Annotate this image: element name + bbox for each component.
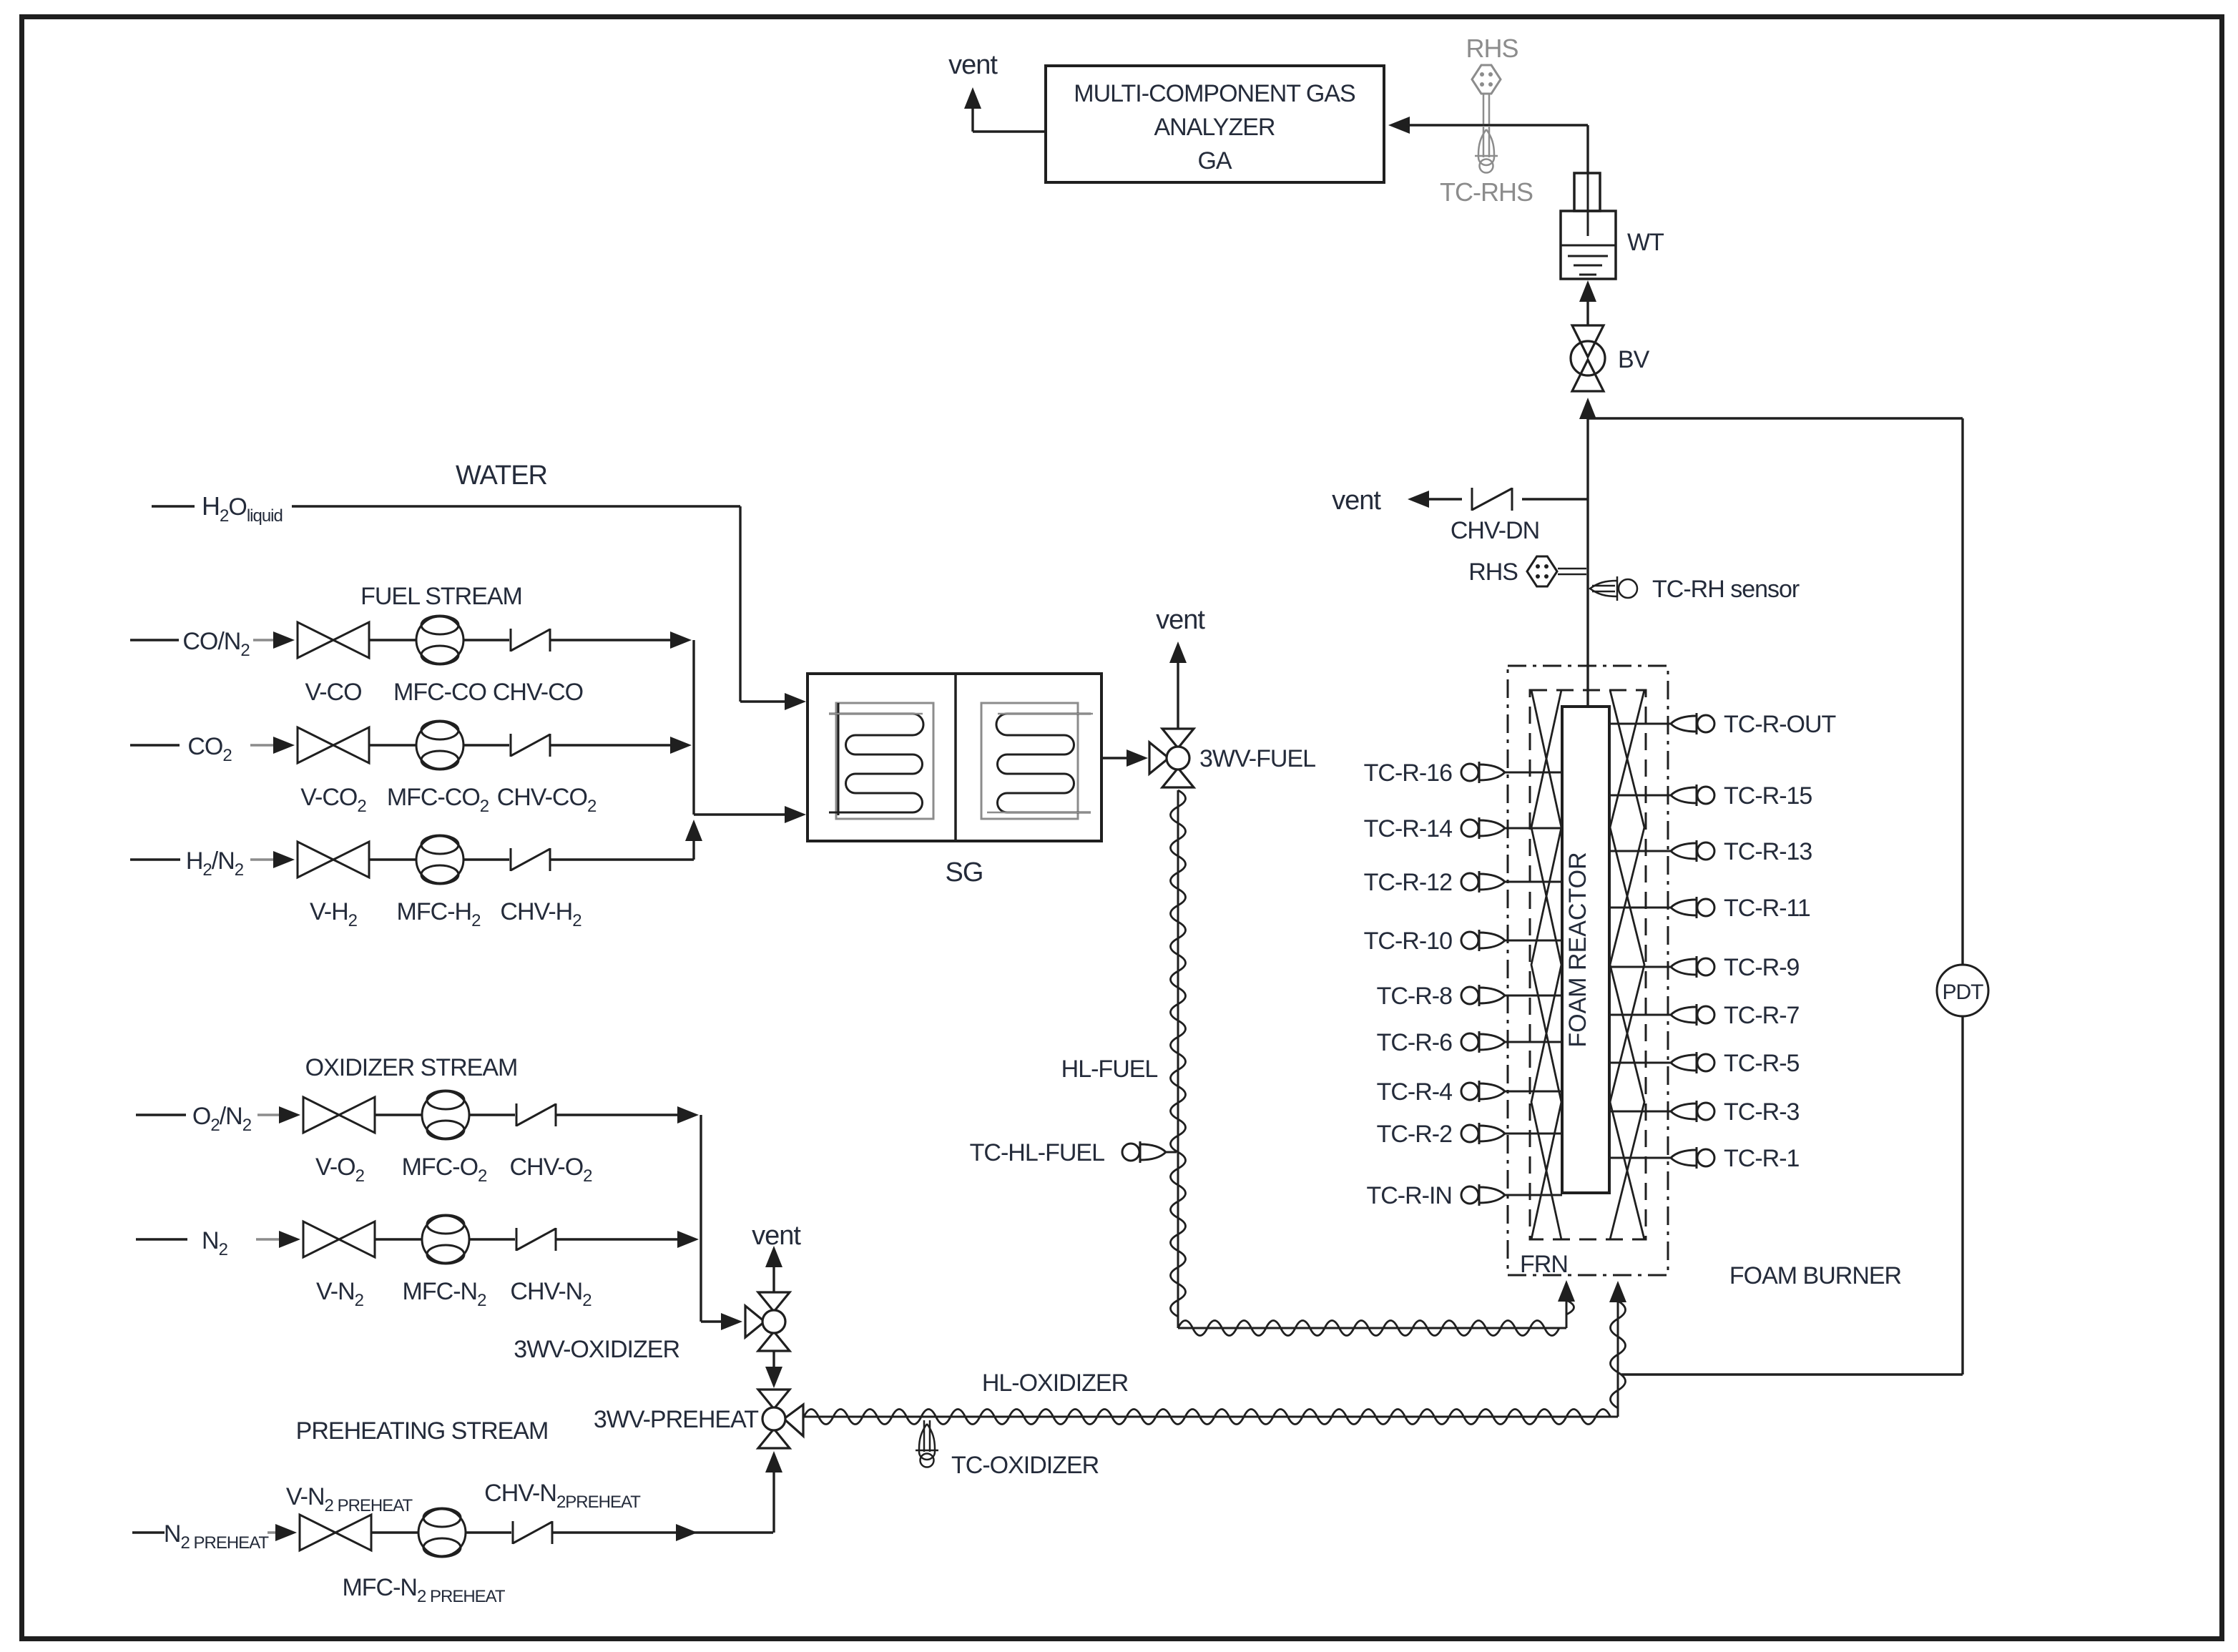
wire main pipe junction to reactor [1586, 418, 1589, 707]
node inlet 293 [180, 729, 240, 761]
heating element zigzag left [1531, 690, 1561, 1239]
svg-text:MFC-CO: MFC-CO [393, 679, 486, 706]
svg-text:TC-R-15: TC-R-15 [1724, 782, 1812, 810]
svg-text:BV: BV [1618, 346, 1650, 373]
svg-text:PDT: PDT [1943, 980, 1984, 1004]
wire inlet line [130, 858, 182, 860]
foam burner inner box (dashed) [1530, 690, 1646, 1239]
wire inlet line [136, 1238, 187, 1240]
svg-text:vent: vent [948, 50, 998, 80]
wire PDT tap line top [1588, 417, 1963, 419]
wire water line H2O [152, 505, 740, 507]
valve 3WV-FUEL three-way [1162, 729, 1194, 748]
svg-text:TC-RHS: TC-RHS [1440, 177, 1533, 207]
sensor TC-RH [1592, 585, 1615, 587]
check valve CHV-H2 [510, 848, 512, 871]
svg-text:TC-R-10: TC-R-10 [1364, 928, 1452, 955]
wire inlet line [132, 1531, 184, 1533]
node inlet 302 [179, 624, 253, 656]
wire vent branch CHV-DN [1408, 491, 1429, 508]
valve V-N2 [303, 1221, 339, 1257]
foam burner outer furnace box (dash-dot) [1508, 666, 1668, 1275]
svg-text:TC-R-2: TC-R-2 [1377, 1121, 1453, 1148]
gas analyzer GA box [1046, 66, 1384, 182]
svg-text:TC-RH sensor: TC-RH sensor [1652, 576, 1800, 603]
wire junction to BV [1579, 398, 1596, 419]
heated line HL-FUEL vertical [1177, 790, 1179, 1328]
svg-text:TC-R-3: TC-R-3 [1724, 1098, 1800, 1126]
svg-text:TC-R-13: TC-R-13 [1724, 838, 1812, 865]
SG right coil chamber [981, 703, 1078, 819]
svg-text:OXIDIZER STREAM: OXIDIZER STREAM [305, 1054, 518, 1081]
wire 3WV-OXIDIZER to 3WV-PREHEAT [772, 1351, 775, 1368]
water trap WT [1574, 173, 1600, 211]
svg-text:MULTI-COMPONENT GAS: MULTI-COMPONENT GAS [1074, 80, 1355, 107]
svg-text:HL-FUEL: HL-FUEL [1061, 1056, 1158, 1083]
svg-text:FOAM REACTOR: FOAM REACTOR [1564, 852, 1591, 1047]
valve CHV-DN check valve [1462, 483, 1522, 516]
valve V-CO2 [298, 727, 333, 763]
svg-text:3WV-OXIDIZER: 3WV-OXIDIZER [514, 1336, 679, 1363]
steam generator SG box [808, 674, 1101, 841]
valve V-H2 [298, 842, 333, 877]
svg-text:TC-R-5: TC-R-5 [1724, 1050, 1800, 1077]
svg-text:RHS: RHS [1466, 34, 1518, 63]
heated line HL-OXIDIZER [804, 1416, 1618, 1418]
svg-text:3WV-PREHEAT: 3WV-PREHEAT [594, 1406, 758, 1433]
svg-text:TC-R-12: TC-R-12 [1364, 869, 1452, 896]
thermocouple TC-R-5 [1609, 1062, 1671, 1064]
thermocouple TC-R-11 [1609, 907, 1671, 909]
node inlet 310 [186, 1099, 257, 1131]
wire BV to WT [1579, 280, 1596, 302]
mass flow controller MFC-CO2 [416, 722, 463, 769]
wire water inlet arrow into SG [785, 693, 806, 710]
thermocouple TC-R-9 [1609, 966, 1671, 968]
wire inlet line [130, 744, 182, 746]
svg-text:TC-R-9: TC-R-9 [1724, 954, 1800, 981]
svg-text:TC-R-OUT: TC-R-OUT [1724, 711, 1836, 738]
check valve CHV-O2 [516, 1103, 518, 1126]
svg-text:FOAM BURNER: FOAM BURNER [1729, 1262, 1901, 1289]
mass flow controller MFC-N2 [422, 1216, 469, 1263]
mass flow controller MFC-N2P [418, 1509, 466, 1556]
svg-text:PREHEATING STREAM: PREHEATING STREAM [296, 1417, 549, 1445]
svg-text:RHS: RHS [1468, 559, 1518, 586]
svg-text:WATER: WATER [456, 461, 547, 491]
svg-text:TC-R-8: TC-R-8 [1377, 983, 1453, 1010]
svg-text:vent: vent [1332, 486, 1381, 516]
valve V-N2P [300, 1515, 335, 1550]
svg-text:3WV-FUEL: 3WV-FUEL [1199, 745, 1315, 772]
wire inlet line [136, 1113, 187, 1116]
wire oxidizer inlet arrow into burner [1609, 1281, 1626, 1302]
svg-text:TC-R-6: TC-R-6 [1377, 1029, 1453, 1056]
check valve CHV-N2 [516, 1228, 518, 1251]
thermocouple TC-R-7 [1609, 1014, 1671, 1016]
thermocouple TC-R-15 [1609, 795, 1671, 797]
svg-text:TC-R-1: TC-R-1 [1724, 1145, 1800, 1172]
check valve CHV-CO2 [510, 734, 512, 757]
mass flow controller MFC-CO [416, 616, 463, 664]
node inlet 300 [180, 844, 249, 875]
wire vent arrow from GA [964, 87, 981, 109]
mass flow controller MFC-H2 [416, 836, 463, 883]
check valve CHV-N2P [512, 1521, 514, 1544]
svg-text:SG: SG [946, 857, 983, 888]
svg-text:CHV-DN: CHV-DN [1451, 517, 1539, 544]
svg-text:TC-R-11: TC-R-11 [1724, 895, 1810, 922]
thermocouple TC-R-OUT [1609, 723, 1671, 725]
wire SG outlet to 3WV-FUEL [1101, 757, 1128, 759]
svg-text:TC-R-IN: TC-R-IN [1366, 1182, 1452, 1209]
sensor TC-RHS (gray, below GA line) [1483, 126, 1485, 157]
node inlet 302 [165, 1517, 268, 1548]
svg-text:GA: GA [1197, 147, 1232, 174]
wire inlet line [130, 639, 182, 641]
svg-text:FRN: FRN [1520, 1251, 1568, 1278]
valve V-O2 [303, 1097, 339, 1133]
SG left coil chamber [836, 703, 933, 819]
heated line HL-FUEL horizontal [1178, 1327, 1566, 1329]
foam reactor vessel [1562, 707, 1609, 1193]
svg-text:CHV-CO: CHV-CO [493, 679, 583, 706]
valve BV [1572, 325, 1604, 357]
wire into GA from WT [1388, 117, 1410, 134]
wire fuel inlet arrow into burner [1558, 1280, 1575, 1302]
sensor TC-OXIDIZER [923, 1420, 926, 1452]
heating element zigzag right [1610, 690, 1644, 1239]
thermocouple TC-R-1 [1609, 1157, 1671, 1159]
svg-text:TC-R-16: TC-R-16 [1364, 759, 1452, 787]
svg-text:V-CO: V-CO [305, 679, 361, 706]
wire fuel mix inlet arrow into SG [785, 806, 806, 823]
svg-text:TC-R-7: TC-R-7 [1724, 1002, 1800, 1029]
valve V-CO [298, 622, 333, 658]
wire preheat riser into 3WV-PREHEAT [765, 1451, 782, 1472]
wire oxidizer collector [700, 1115, 702, 1322]
svg-text:vent: vent [752, 1221, 801, 1251]
svg-text:TC-R-4: TC-R-4 [1377, 1078, 1453, 1106]
svg-text:TC-HL-FUEL: TC-HL-FUEL [970, 1139, 1104, 1166]
svg-text:TC-R-14: TC-R-14 [1364, 815, 1452, 842]
svg-text:FUEL STREAM: FUEL STREAM [360, 583, 522, 610]
svg-text:TC-OXIDIZER: TC-OXIDIZER [951, 1452, 1099, 1479]
node inlet 300 [193, 1224, 236, 1255]
thermocouple TC-R-13 [1609, 850, 1671, 852]
svg-text:WT: WT [1627, 229, 1664, 256]
wire fuel collector [692, 640, 695, 815]
check valve CHV-CO [510, 629, 512, 652]
pressure transmitter PDT [1937, 965, 1988, 1016]
thermocouple TC-R-3 [1609, 1111, 1671, 1113]
svg-text:vent: vent [1156, 605, 1205, 635]
svg-text:HL-OXIDIZER: HL-OXIDIZER [982, 1370, 1128, 1397]
wire PDT tap line bottom [1961, 1016, 1963, 1375]
svg-text:ANALYZER: ANALYZER [1154, 114, 1275, 141]
mass flow controller MFC-O2 [422, 1091, 469, 1139]
